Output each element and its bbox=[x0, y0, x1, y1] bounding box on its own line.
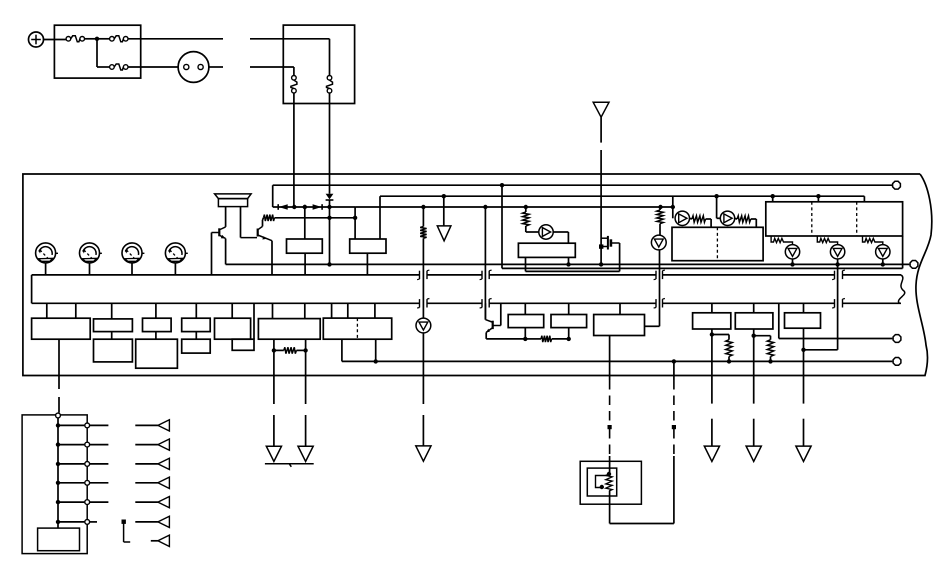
row wire to arrow bbox=[135, 482, 158, 484]
resistor R4 bbox=[659, 207, 661, 210]
pin circle bbox=[85, 462, 90, 467]
tick bbox=[672, 425, 676, 429]
diode D2 bbox=[313, 204, 322, 210]
wire bbox=[155, 332, 157, 340]
wire battery to fuse box bbox=[44, 39, 67, 41]
wire bbox=[274, 349, 284, 351]
box F6 bbox=[258, 319, 320, 340]
node bbox=[374, 359, 378, 363]
wire bbox=[659, 224, 661, 236]
box OSC bbox=[594, 315, 645, 336]
transistor Q1 bbox=[220, 227, 226, 230]
wire term3 bbox=[779, 338, 893, 340]
box REG1 bbox=[287, 239, 323, 253]
node bbox=[292, 205, 296, 209]
ground triangle bbox=[266, 446, 281, 461]
wire rail C to box2 bbox=[379, 196, 381, 239]
wire to ignition switch bbox=[128, 66, 178, 68]
ground triangle bbox=[704, 446, 719, 461]
node bbox=[607, 472, 611, 476]
wire U link bbox=[610, 523, 674, 525]
wire bbox=[231, 303, 233, 318]
node bbox=[801, 348, 805, 352]
wire to rail E bbox=[792, 259, 794, 264]
wire H1 down bbox=[711, 329, 713, 404]
node bbox=[881, 262, 885, 266]
wire crystal out bbox=[609, 491, 611, 524]
pin circle bbox=[85, 480, 90, 485]
wire REG3 stub2 bbox=[568, 257, 570, 264]
transistor Q3 bbox=[484, 303, 486, 319]
row wire out bbox=[90, 424, 108, 426]
wire REG3 stub bbox=[525, 257, 527, 271]
wire to rail E bbox=[882, 259, 884, 264]
wire branch left bbox=[804, 349, 838, 351]
rail E bbox=[226, 263, 910, 265]
divider bbox=[356, 318, 358, 339]
wire bbox=[111, 303, 113, 319]
zener D3 bbox=[326, 194, 334, 200]
wire OSC out down bbox=[609, 336, 611, 381]
wire rail C corner down bbox=[863, 196, 865, 202]
node bbox=[714, 194, 718, 198]
row wire bbox=[58, 501, 84, 503]
wire V1 down through bus bbox=[659, 250, 661, 326]
wire bbox=[97, 38, 110, 40]
node bbox=[303, 205, 307, 209]
connector arrow bbox=[158, 458, 170, 469]
pin circle bbox=[85, 500, 90, 505]
wire into crystal box bbox=[609, 456, 611, 474]
wire Q1 base down to bus bbox=[211, 233, 213, 275]
wire F1 out bbox=[58, 339, 60, 389]
wire Q1 emitter down bbox=[225, 239, 227, 265]
wire zener branch down to rail bbox=[329, 218, 331, 265]
resistor R11 bbox=[525, 207, 527, 212]
rail B bbox=[273, 184, 892, 186]
row wire out bbox=[90, 463, 108, 465]
node bbox=[658, 205, 662, 209]
wire down through bus to Q3 bbox=[484, 207, 486, 320]
connector arrow bbox=[158, 439, 170, 450]
row wire bbox=[58, 444, 84, 446]
wire down to fuse F4 bbox=[293, 67, 295, 76]
box F4 bbox=[182, 318, 211, 331]
bus line y=303.3 bbox=[32, 302, 420, 304]
node bbox=[671, 205, 675, 209]
box F5b bbox=[232, 339, 254, 350]
node bbox=[327, 262, 331, 266]
terminal pin bbox=[893, 358, 901, 366]
box DEMOD bbox=[672, 227, 763, 260]
box F1 bbox=[32, 318, 91, 339]
wire bbox=[304, 207, 306, 239]
wire REG1 to bus bbox=[304, 253, 306, 275]
wire to triangle bbox=[443, 196, 445, 226]
node bbox=[327, 205, 331, 209]
wire Q2 emitter to bus bbox=[271, 241, 273, 275]
row wire bbox=[58, 482, 84, 484]
ground triangle bbox=[298, 446, 313, 461]
wire F6 gnd b bbox=[305, 339, 307, 404]
wire bbox=[673, 456, 675, 524]
dashed drop a2 bbox=[609, 429, 611, 456]
wire bbox=[272, 303, 274, 318]
resistor R2 bbox=[264, 215, 275, 221]
row wire bbox=[58, 424, 84, 426]
row7 wire bbox=[151, 540, 158, 542]
node bbox=[303, 205, 307, 209]
node bbox=[56, 520, 60, 524]
wire bbox=[772, 196, 774, 202]
wire rail C tap2 bbox=[716, 196, 718, 218]
node bbox=[752, 334, 756, 338]
wire bbox=[568, 328, 570, 339]
resistor R3 bbox=[422, 207, 424, 227]
connector arrow bbox=[158, 496, 170, 507]
crystal coil bbox=[606, 474, 612, 491]
battery B+ terminal bbox=[29, 32, 44, 47]
antenna bbox=[593, 102, 609, 117]
resistor R13 bbox=[541, 336, 552, 342]
row wire to arrow bbox=[135, 444, 158, 446]
speaker cone bbox=[215, 194, 252, 199]
node bbox=[56, 423, 60, 427]
pin circle bbox=[85, 520, 90, 525]
node bbox=[56, 442, 60, 446]
box F2 bbox=[94, 319, 133, 332]
wire V3 branch down through bus bbox=[837, 264, 839, 349]
node bbox=[327, 216, 331, 220]
wire bbox=[803, 419, 805, 446]
wire bbox=[97, 66, 110, 68]
divider bbox=[811, 202, 813, 236]
wire bbox=[568, 303, 570, 314]
bus left end cap bbox=[31, 275, 33, 303]
wire bbox=[817, 196, 819, 202]
potentiometer VR3 bbox=[122, 243, 142, 263]
link wire bbox=[526, 270, 620, 272]
node bbox=[56, 481, 60, 485]
dashed drop a bbox=[609, 380, 611, 424]
node bbox=[303, 348, 307, 352]
wire step bbox=[354, 207, 356, 239]
dashed drop b2 bbox=[673, 429, 675, 456]
pin circle bbox=[56, 413, 61, 418]
wire (after gap) bbox=[250, 66, 294, 68]
box H1 bbox=[693, 313, 731, 329]
amp A0 bbox=[539, 225, 553, 239]
wire junction down bbox=[96, 39, 98, 67]
box F3 bbox=[143, 318, 172, 331]
node bbox=[483, 205, 487, 209]
wire rail B corner down bbox=[272, 185, 274, 207]
box F5 bbox=[215, 318, 251, 339]
terminal pin bbox=[893, 181, 901, 189]
wire F1 out2 bbox=[58, 397, 60, 413]
rail C bbox=[380, 195, 864, 197]
box F4b bbox=[182, 339, 211, 353]
wire pot to bus bbox=[89, 263, 91, 275]
probe symbol bbox=[122, 520, 126, 524]
node bbox=[816, 194, 820, 198]
wire bbox=[304, 303, 306, 318]
fuse box bbox=[54, 25, 140, 78]
node junction bbox=[95, 37, 99, 41]
wire bbox=[803, 303, 805, 313]
wire bbox=[770, 357, 772, 362]
wire bbox=[305, 415, 307, 446]
wire bbox=[422, 333, 424, 404]
connector block bbox=[22, 415, 87, 554]
chassis line bbox=[265, 463, 314, 465]
pin circle bbox=[85, 442, 90, 447]
dashed drop b bbox=[673, 380, 675, 424]
wire term3 feed bbox=[778, 303, 780, 338]
wire diode row bbox=[273, 206, 356, 208]
resistor R5 bbox=[692, 216, 706, 222]
node bbox=[524, 205, 528, 209]
current source V1 bbox=[651, 235, 666, 250]
wire to rail E bbox=[837, 259, 839, 264]
driver V2 bbox=[785, 245, 799, 259]
row wire bbox=[58, 463, 84, 465]
node bbox=[790, 262, 794, 266]
wire mosfet to link bbox=[619, 243, 621, 271]
row wire out bbox=[90, 501, 108, 503]
wire H3 down bbox=[803, 328, 805, 403]
wire switch to right bbox=[209, 66, 223, 68]
speaker right lead bbox=[240, 207, 242, 238]
row wire out bbox=[90, 521, 97, 523]
box F2b bbox=[94, 339, 133, 362]
wire pot to bus bbox=[174, 263, 176, 275]
node bbox=[353, 216, 357, 220]
bus line y=274.9 bbox=[32, 274, 420, 276]
box H3 bbox=[785, 313, 821, 328]
node bbox=[523, 337, 527, 341]
wire bbox=[195, 332, 197, 340]
rail F bbox=[502, 267, 903, 269]
wire rail C tap bbox=[672, 196, 674, 218]
fuse F3 bbox=[110, 65, 115, 70]
box F3b bbox=[136, 339, 178, 368]
node bbox=[442, 194, 446, 198]
resistor R6 bbox=[737, 216, 751, 222]
wire bbox=[331, 303, 333, 318]
wire F7 out b bbox=[375, 339, 377, 361]
node bbox=[599, 262, 603, 266]
potentiometer VR4 bbox=[165, 243, 185, 263]
terminal pin bbox=[910, 261, 918, 269]
row wire to arrow bbox=[135, 521, 158, 523]
wire bbox=[728, 357, 730, 362]
resistor R8 bbox=[817, 236, 837, 245]
wire bbox=[85, 38, 98, 40]
box REG3 bbox=[518, 243, 575, 257]
wire (after gap) bbox=[250, 38, 330, 40]
wire bbox=[524, 303, 526, 314]
crystal outer box bbox=[580, 461, 641, 504]
wire to amp A0 bbox=[525, 226, 527, 232]
divider bbox=[716, 227, 718, 260]
inner box bbox=[38, 528, 80, 551]
wire A2 chain bbox=[735, 217, 737, 220]
diode D1 bbox=[279, 204, 288, 210]
wire Q2 collector up bbox=[262, 220, 264, 226]
row wire out bbox=[90, 482, 108, 484]
row wire to arrow bbox=[135, 424, 158, 426]
rail G bbox=[342, 360, 893, 362]
wire F6 gnd a bbox=[273, 339, 275, 404]
potentiometer VR1 bbox=[36, 243, 56, 263]
wire Q3 emitter bbox=[485, 332, 487, 339]
rail D continues bbox=[355, 206, 672, 208]
node bbox=[272, 348, 276, 352]
wire pot to bus bbox=[131, 263, 133, 275]
wire bbox=[374, 303, 376, 318]
box G1 bbox=[508, 315, 544, 328]
node on rail B bbox=[500, 183, 504, 187]
node bbox=[835, 262, 839, 266]
fuse F4 bbox=[292, 76, 297, 81]
wire F4 down into IC bbox=[293, 93, 295, 207]
wire bbox=[524, 328, 526, 339]
wire bbox=[46, 303, 48, 318]
pin circle bbox=[85, 423, 90, 428]
fuse F2 bbox=[110, 37, 115, 42]
potentiometer VR2 bbox=[80, 243, 100, 263]
wire F7 out a bbox=[341, 339, 343, 361]
antenna lead (after gap) bbox=[600, 150, 602, 264]
wire H2 down bbox=[753, 329, 755, 404]
speaker left lead bbox=[225, 207, 227, 227]
node bbox=[727, 359, 731, 363]
speaker magnet bbox=[218, 199, 247, 207]
wire fuse box to transformer box top bbox=[128, 38, 223, 40]
amp A2 bbox=[720, 211, 734, 225]
wire bbox=[711, 303, 713, 313]
resistor R7 bbox=[771, 236, 792, 245]
wire branch bbox=[712, 334, 729, 336]
node bbox=[566, 262, 570, 266]
transistor Q2 bbox=[241, 237, 258, 239]
wire bbox=[525, 338, 541, 340]
terminal pin bbox=[893, 335, 901, 343]
wire bbox=[195, 303, 197, 318]
box OUT bbox=[766, 202, 903, 236]
connector arrow bbox=[158, 535, 170, 546]
wire pot to bus bbox=[45, 263, 47, 275]
driver V3 bbox=[830, 245, 844, 259]
row wire out bbox=[90, 444, 108, 446]
antenna lead bbox=[600, 117, 602, 142]
wire bbox=[673, 361, 675, 380]
node bbox=[56, 462, 60, 466]
connector arrow bbox=[158, 516, 170, 527]
wire bbox=[753, 303, 755, 313]
wire down to fuse F5 bbox=[329, 39, 331, 76]
node bbox=[421, 205, 425, 209]
node bbox=[672, 359, 676, 363]
wire bbox=[75, 303, 77, 318]
wire bbox=[253, 303, 255, 339]
box H2 bbox=[735, 313, 773, 329]
node bbox=[56, 500, 60, 504]
row wire bbox=[58, 521, 84, 523]
row wire to arrow bbox=[135, 463, 158, 465]
fuse F5 bbox=[327, 76, 332, 81]
node bbox=[771, 194, 775, 198]
wire bbox=[273, 415, 275, 446]
bus torn right end bbox=[898, 275, 904, 303]
wire A1 chain bbox=[690, 217, 692, 220]
wire bus bbox=[57, 418, 59, 528]
connector arrow bbox=[158, 477, 170, 488]
resistor R12 bbox=[284, 347, 297, 353]
wire row2 bbox=[275, 217, 356, 219]
wire to OSC box pin bbox=[645, 325, 660, 327]
wire bbox=[111, 332, 113, 340]
ground triangle bbox=[796, 446, 811, 461]
wire F5 down to zener bbox=[329, 93, 331, 194]
divider bbox=[856, 202, 858, 236]
wire REG2 to bus bbox=[366, 253, 368, 275]
wire branch bbox=[754, 335, 771, 337]
indicator M1 bbox=[416, 318, 431, 333]
wire bbox=[155, 303, 157, 318]
row wire to arrow bbox=[135, 501, 158, 503]
wire R3 down through bus bbox=[422, 238, 424, 318]
ground triangle bbox=[746, 446, 761, 461]
fuse F1 bbox=[66, 37, 71, 42]
connector arrow bbox=[158, 420, 170, 431]
open triangle pad bbox=[437, 226, 451, 241]
ground triangle bbox=[416, 446, 431, 461]
driver V4 bbox=[876, 245, 890, 259]
coil box bbox=[283, 25, 354, 103]
wire bbox=[422, 415, 424, 446]
wire box right edge down bbox=[902, 236, 904, 268]
wire bbox=[711, 419, 713, 446]
IC outline with torn right edge bbox=[23, 174, 932, 376]
node bbox=[768, 359, 772, 363]
box G2 bbox=[551, 315, 587, 328]
node bbox=[710, 332, 714, 336]
wire bbox=[753, 419, 755, 446]
wire bbox=[347, 303, 349, 318]
box REG2 bbox=[350, 239, 386, 253]
resistor R15 bbox=[767, 340, 773, 357]
ignition switch bbox=[178, 52, 209, 83]
wire A0 out bbox=[553, 231, 568, 233]
amp A1 bbox=[675, 211, 689, 225]
wire rail B to rail F bbox=[501, 185, 503, 268]
wire bbox=[619, 303, 621, 314]
node bbox=[600, 485, 604, 489]
mosfet Q4 bbox=[601, 237, 608, 239]
crystal mid box bbox=[587, 468, 616, 496]
resistor R14 bbox=[726, 340, 732, 357]
tick bbox=[608, 425, 612, 429]
resistor R9 bbox=[863, 236, 883, 245]
node bbox=[567, 337, 571, 341]
box F7 bbox=[323, 318, 391, 339]
crystal inner loop bbox=[596, 476, 610, 488]
